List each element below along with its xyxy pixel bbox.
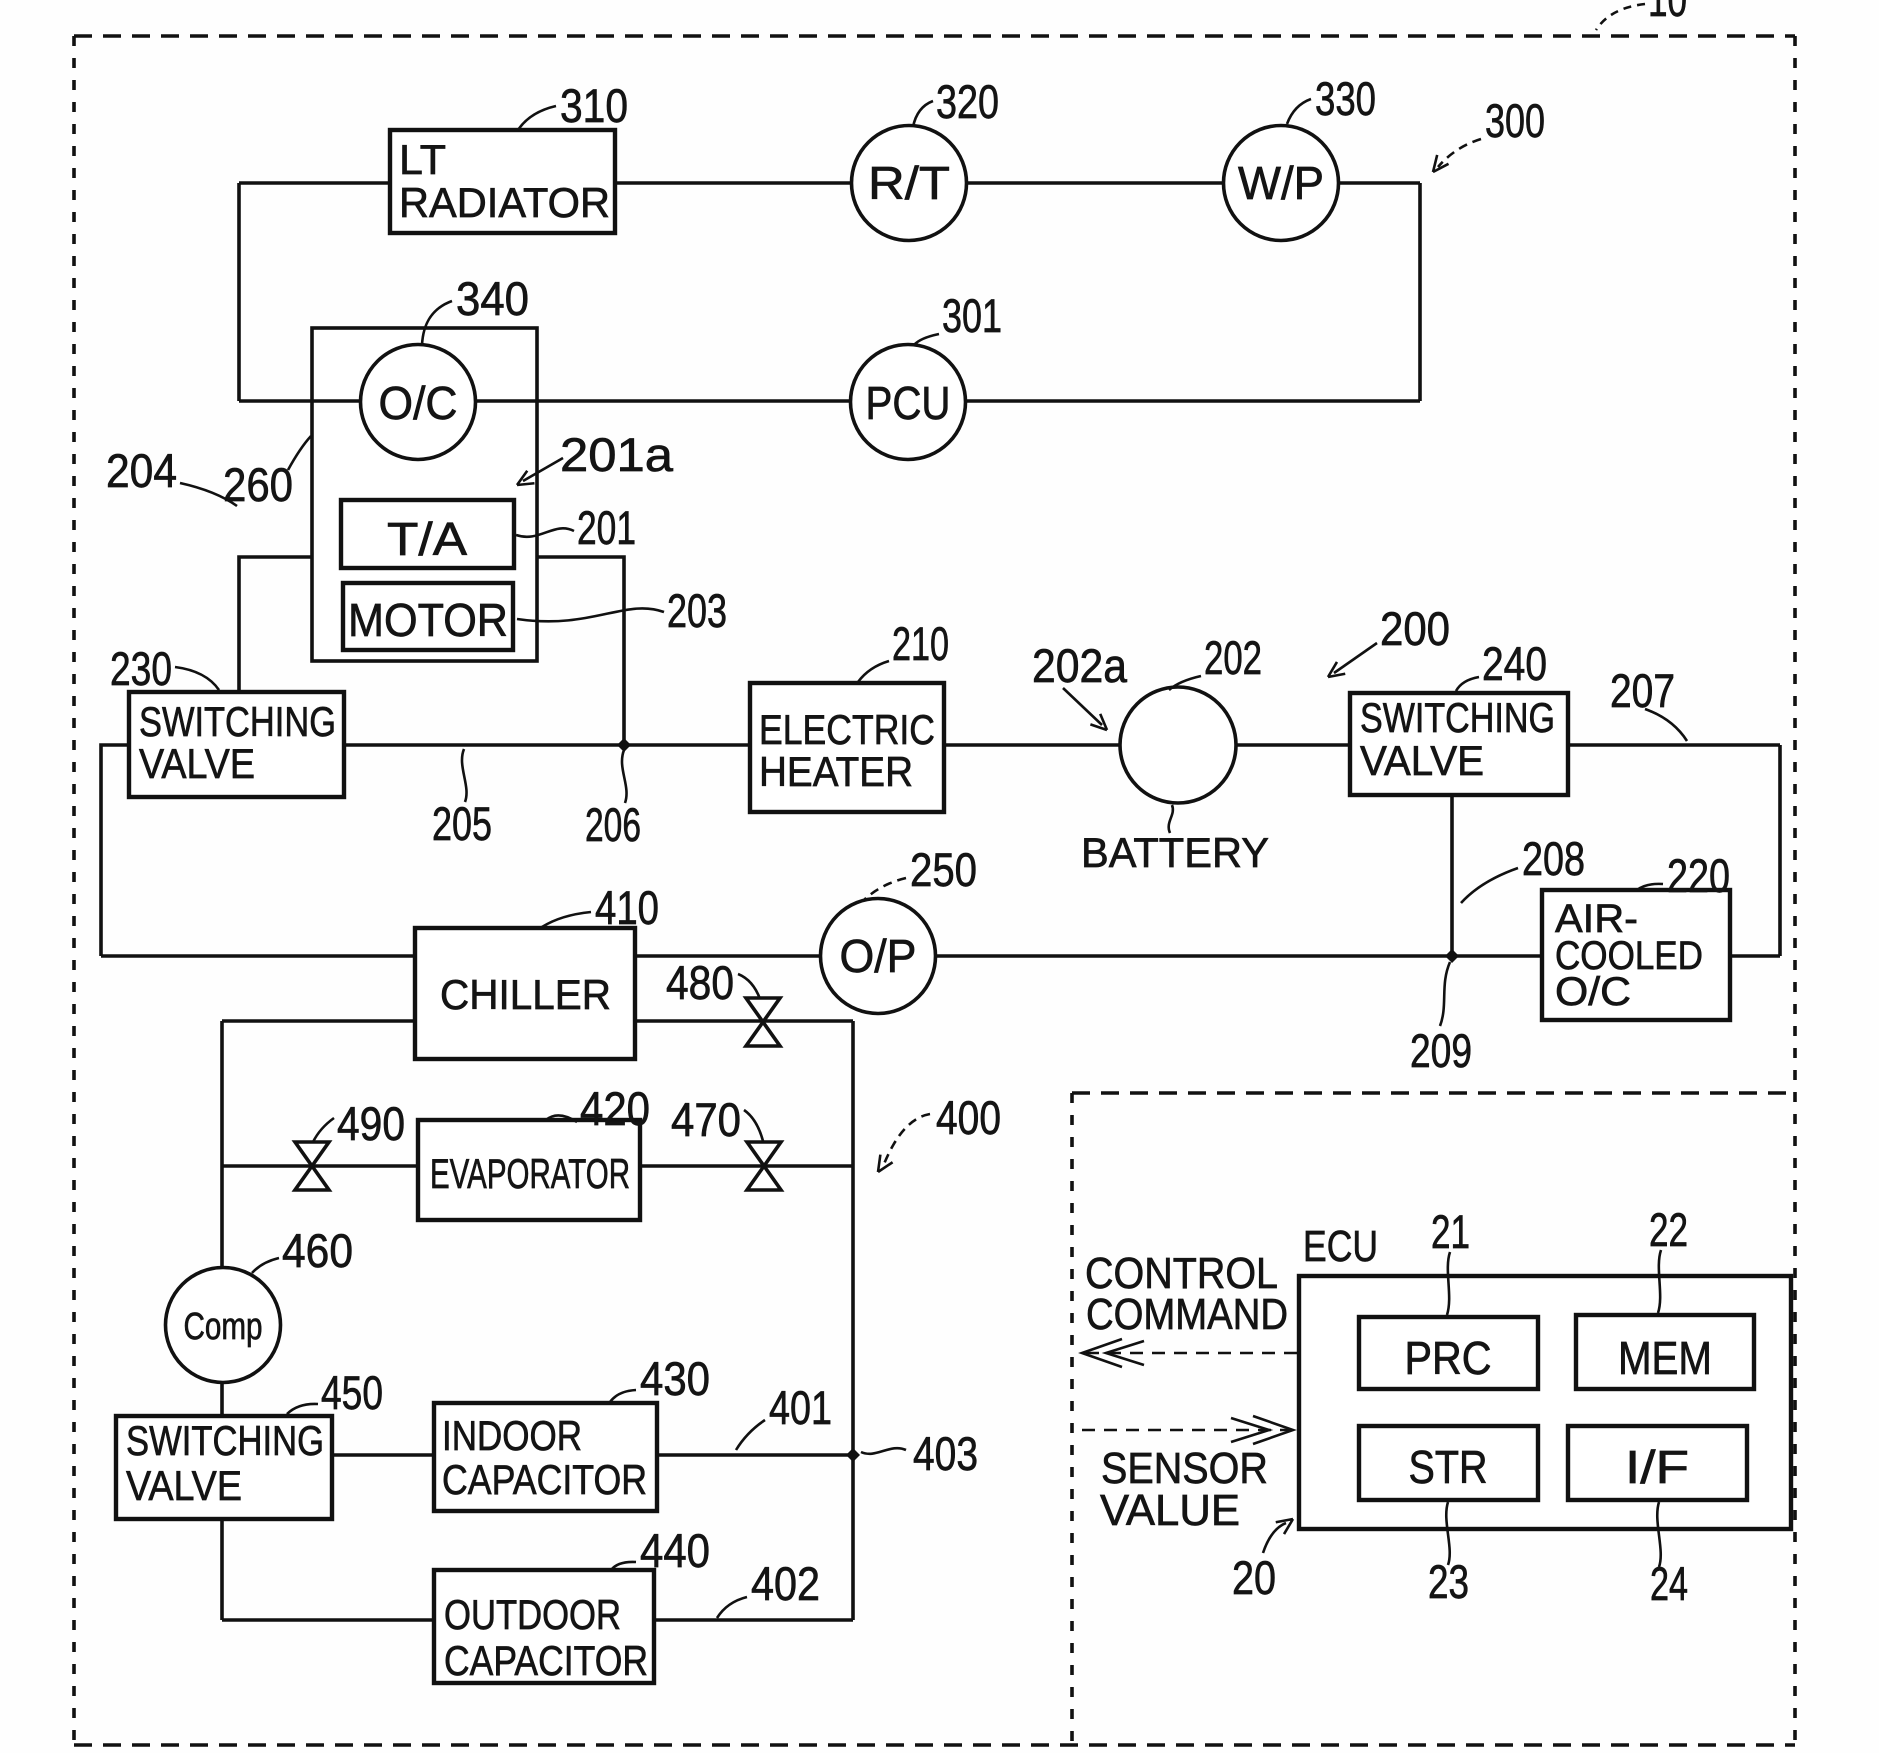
- svg-text:480: 480: [666, 956, 734, 1009]
- svg-text:24: 24: [1650, 1557, 1688, 1610]
- svg-text:200: 200: [1380, 602, 1450, 655]
- svg-text:SWITCHING: SWITCHING: [1360, 694, 1555, 741]
- Comp circle 460: [166, 1268, 281, 1383]
- svg-text:206: 206: [585, 798, 641, 851]
- svg-text:320: 320: [936, 75, 999, 128]
- svg-text:202: 202: [1204, 631, 1262, 684]
- EVAPORATOR 420: [418, 1120, 640, 1220]
- svg-text:21: 21: [1431, 1205, 1470, 1258]
- svg-text:CHILLER: CHILLER: [440, 971, 611, 1018]
- R/T circle 320: [852, 126, 967, 241]
- wire 401: indoor capacitor run y=1455: [332, 1453, 853, 1457]
- svg-text:310: 310: [560, 79, 628, 132]
- W/P circle 330: [1224, 126, 1339, 241]
- svg-text:208: 208: [1522, 832, 1585, 885]
- SWITCHING VALVE 230: [129, 692, 344, 797]
- svg-text:BATTERY: BATTERY: [1081, 829, 1269, 876]
- wire: valve 230 left loop down: [101, 745, 129, 956]
- svg-text:240: 240: [1482, 637, 1547, 690]
- svg-text:209: 209: [1410, 1024, 1472, 1077]
- wire 205/main battery coolant run y=745: [344, 743, 1780, 747]
- PCU circle 301: [851, 345, 966, 460]
- svg-text:20: 20: [1232, 1551, 1276, 1604]
- AIR-COOLED O/C 220: [1542, 890, 1730, 1020]
- SENSOR VALUE dashed arrow: [1082, 1429, 1290, 1432]
- svg-text:490: 490: [337, 1097, 405, 1150]
- wire: loop 400 left vertical (to Comp): [220, 1021, 224, 1269]
- STR box 23: [1359, 1426, 1538, 1500]
- svg-text:410: 410: [595, 881, 659, 934]
- svg-text:O/C: O/C: [379, 377, 458, 429]
- node 209 junction: [1445, 949, 1459, 963]
- svg-text:301: 301: [942, 289, 1002, 342]
- svg-text:T/A: T/A: [387, 513, 467, 565]
- svg-text:210: 210: [892, 617, 949, 670]
- O/C circle 340: [361, 345, 476, 460]
- node 206 junction: [617, 738, 631, 752]
- assembly box 260 around O/C, T/A, MOTOR: [312, 328, 537, 661]
- svg-text:VALVE: VALVE: [1360, 737, 1484, 784]
- svg-text:HEATER: HEATER: [759, 748, 913, 795]
- CHILLER 410: [415, 928, 635, 1059]
- node 403 junction: [846, 1448, 860, 1462]
- T/A box 201a: [341, 500, 514, 568]
- wire 207: right side vertical: [1778, 745, 1782, 956]
- wire: loop 300 right vertical: [1418, 183, 1422, 401]
- wire: loop 300 bottom run y=401: [239, 399, 1420, 403]
- OUTDOOR CAPACITOR 440: [434, 1570, 654, 1683]
- svg-text:PRC: PRC: [1405, 1332, 1492, 1384]
- SWITCHING VALVE 450: [116, 1416, 332, 1519]
- svg-text:220: 220: [1667, 849, 1730, 902]
- svg-text:203: 203: [667, 584, 727, 637]
- svg-text:22: 22: [1649, 1203, 1688, 1256]
- svg-text:201: 201: [577, 501, 636, 554]
- wire: loop 300 left vertical: [237, 183, 241, 401]
- svg-text:OUTDOOR: OUTDOOR: [444, 1591, 621, 1638]
- svg-text:STR: STR: [1409, 1441, 1488, 1493]
- svg-text:450: 450: [321, 1366, 383, 1419]
- svg-text:ELECTRIC: ELECTRIC: [759, 706, 935, 753]
- wire: lower coolant run y=956 through chiller and O/P: [101, 954, 1780, 958]
- ELECTRIC HEATER 210: [750, 683, 944, 812]
- svg-text:230: 230: [110, 642, 172, 695]
- wire 208: valve 240 down to junction 209: [1450, 795, 1454, 956]
- ECU box 20: [1299, 1276, 1791, 1529]
- svg-text:400: 400: [936, 1091, 1001, 1144]
- svg-text:VALVE: VALVE: [139, 740, 255, 787]
- svg-text:430: 430: [640, 1352, 710, 1405]
- svg-text:RADIATOR: RADIATOR: [399, 179, 610, 226]
- svg-text:201a: 201a: [560, 428, 674, 481]
- svg-text:MOTOR: MOTOR: [348, 594, 508, 646]
- wire: outdoor capacitor run y=1620: [222, 1618, 853, 1622]
- svg-text:403: 403: [913, 1427, 978, 1480]
- MEM box 22: [1576, 1315, 1754, 1389]
- BATTERY circle 202: [1120, 687, 1236, 803]
- wire 206: box 260 to main battery run: [537, 557, 624, 745]
- SWITCHING VALVE 240: [1350, 693, 1568, 795]
- svg-text:204: 204: [106, 444, 177, 497]
- svg-text:LT: LT: [399, 136, 446, 183]
- svg-text:MEM: MEM: [1618, 1332, 1712, 1384]
- ECU area dashed boundary: [1072, 1093, 1795, 1745]
- svg-text:205: 205: [432, 797, 492, 850]
- PRC box 21: [1359, 1317, 1538, 1389]
- svg-text:402: 402: [751, 1557, 820, 1610]
- wire: refrigerant loop 400 top run y=1021: [222, 1019, 853, 1023]
- svg-text:300: 300: [1485, 94, 1545, 147]
- svg-text:330: 330: [1315, 72, 1376, 125]
- svg-text:O/C: O/C: [1555, 970, 1631, 1014]
- expansion valve 470: [747, 1142, 781, 1190]
- svg-text:401: 401: [769, 1381, 832, 1434]
- svg-text:CAPACITOR: CAPACITOR: [444, 1637, 648, 1684]
- svg-text:460: 460: [282, 1224, 353, 1277]
- INDOOR CAPACITOR 430: [434, 1403, 657, 1511]
- svg-text:SWITCHING: SWITCHING: [139, 698, 336, 745]
- wire: evaporator run y=1166: [222, 1164, 853, 1168]
- svg-text:VALUE: VALUE: [1100, 1486, 1240, 1535]
- svg-text:I/F: I/F: [1625, 1441, 1689, 1493]
- svg-text:202a: 202a: [1032, 639, 1128, 692]
- svg-text:SWITCHING: SWITCHING: [126, 1417, 324, 1464]
- expansion valve 480: [746, 998, 780, 1046]
- svg-text:CAPACITOR: CAPACITOR: [442, 1456, 647, 1503]
- svg-text:207: 207: [1610, 664, 1675, 717]
- expansion valve 490: [295, 1142, 329, 1190]
- wire: loop 400 right vertical: [851, 1021, 855, 1620]
- svg-text:INDOOR: INDOOR: [442, 1412, 582, 1459]
- svg-text:R/T: R/T: [868, 157, 950, 209]
- svg-text:ECU: ECU: [1303, 1222, 1378, 1271]
- svg-text:VALVE: VALVE: [126, 1462, 242, 1509]
- wire 204: box 260 to switching valve 230: [239, 557, 312, 692]
- svg-text:W/P: W/P: [1238, 157, 1324, 209]
- LT RADIATOR 310: [390, 130, 615, 233]
- svg-text:470: 470: [671, 1093, 741, 1146]
- svg-text:340: 340: [456, 272, 529, 325]
- svg-text:250: 250: [910, 843, 977, 896]
- MOTOR box 203: [343, 583, 513, 650]
- CONTROL COMMAND dashed arrow: [1085, 1352, 1297, 1355]
- wire: Comp to switching valve 450: [220, 1381, 224, 1416]
- svg-text:EVAPORATOR: EVAPORATOR: [430, 1150, 630, 1197]
- svg-text:10: 10: [1648, 0, 1687, 26]
- I/F box 24: [1568, 1426, 1747, 1500]
- svg-text:420: 420: [580, 1082, 650, 1135]
- svg-text:Comp: Comp: [184, 1306, 263, 1348]
- wire: HT coolant loop 300 top run y=183: [239, 181, 1420, 185]
- svg-text:440: 440: [640, 1524, 710, 1577]
- svg-text:O/P: O/P: [840, 930, 917, 982]
- svg-text:PCU: PCU: [866, 377, 951, 429]
- svg-text:COMMAND: COMMAND: [1086, 1290, 1288, 1339]
- O/P circle 250: [821, 899, 936, 1014]
- wire: valve 450 down to bottom run: [220, 1519, 224, 1620]
